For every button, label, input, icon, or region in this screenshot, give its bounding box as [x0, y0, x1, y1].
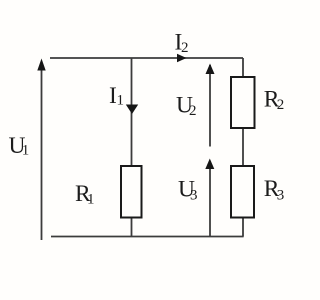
- svg-text:1: 1: [117, 92, 125, 108]
- svg-text:3: 3: [277, 187, 285, 203]
- svg-text:2: 2: [189, 103, 197, 119]
- svg-text:1: 1: [87, 191, 95, 207]
- svg-text:1: 1: [22, 142, 30, 158]
- svg-text:2: 2: [277, 97, 285, 113]
- svg-text:2: 2: [181, 40, 189, 56]
- svg-text:3: 3: [190, 187, 198, 203]
